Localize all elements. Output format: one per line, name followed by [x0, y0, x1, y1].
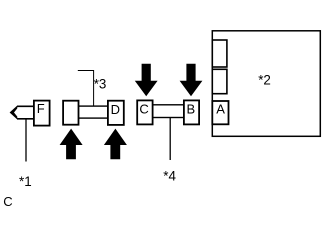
svg-text:*4: *4 [163, 168, 176, 183]
svg-text:A: A [216, 102, 225, 117]
port box 1 on ECU [212, 40, 227, 67]
down arrow above connector C [135, 64, 158, 96]
port box 2 on ECU [212, 69, 227, 93]
svg-text:C: C [3, 194, 12, 209]
svg-text:*1: *1 [19, 174, 32, 189]
ECU box *2 [212, 31, 320, 137]
down arrow above connector B [180, 64, 203, 96]
svg-text:*3: *3 [94, 76, 107, 91]
connector plug *1 chevron tip [10, 106, 18, 120]
shaft bar of component *4 [150, 105, 186, 118]
svg-text:*2: *2 [258, 72, 271, 87]
wire from plug to label *1 [25, 120, 27, 162]
svg-text:F: F [37, 101, 45, 116]
connector plug *1 body [17, 106, 35, 119]
svg-text:C: C [139, 102, 148, 117]
connector D box [108, 101, 124, 125]
connector B box [184, 100, 199, 124]
svg-text:D: D [111, 102, 120, 117]
connector A port box [212, 101, 228, 124]
shaft bar of component *3 [75, 106, 111, 118]
cap box of component *3 [63, 101, 78, 125]
up arrow under connector D [104, 129, 127, 160]
connector C box [137, 100, 152, 124]
leader line for label *3 [78, 71, 94, 106]
svg-text:B: B [186, 102, 195, 117]
up arrow under cap box [60, 129, 83, 160]
connector F box [34, 101, 50, 126]
wire from shaft to label *4 [169, 118, 171, 161]
